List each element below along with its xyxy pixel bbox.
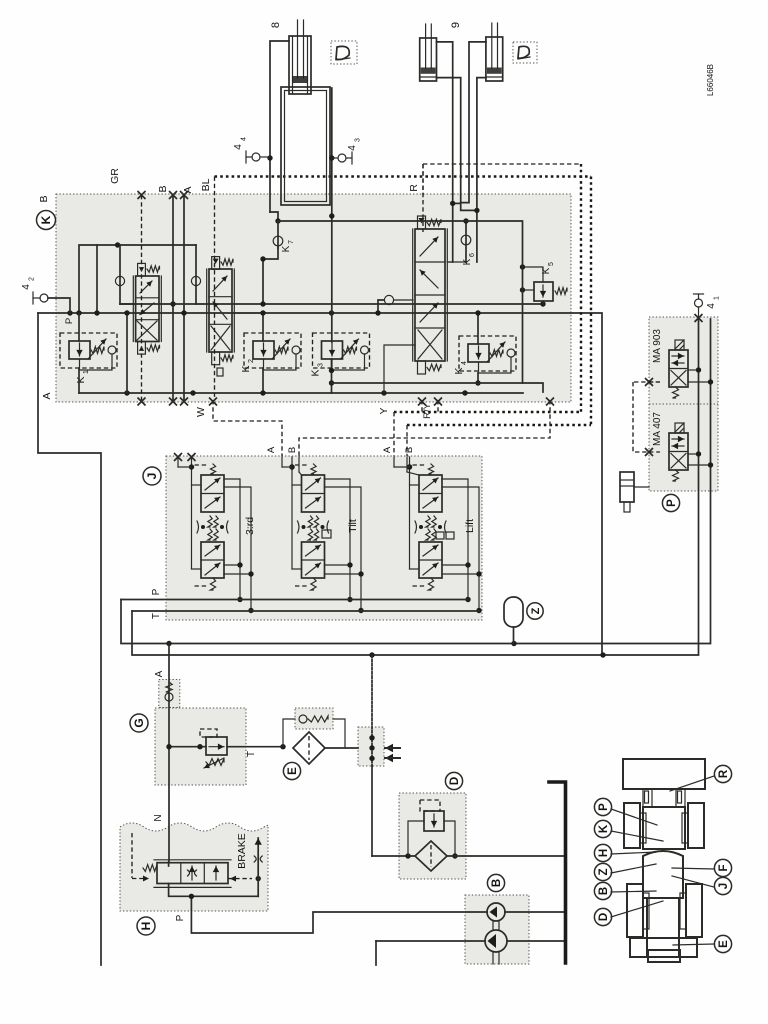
- svg-text:B: B: [157, 185, 169, 192]
- filter E bypass check: [283, 719, 295, 747]
- tractor front frame: [643, 807, 685, 849]
- wire B work line K1 section: [172, 195, 174, 400]
- svg-text:K: K: [310, 369, 322, 376]
- brake valve H shaded region: [120, 823, 268, 911]
- pump 2: [485, 930, 507, 952]
- pilot stubs K bottom: [421, 400, 423, 412]
- accumulator Z: [504, 597, 523, 627]
- svg-text:Y: Y: [378, 407, 390, 414]
- svg-text:B: B: [38, 195, 50, 202]
- svg-text:Z: Z: [598, 868, 610, 875]
- svg-text:4: 4: [461, 361, 468, 365]
- check valve A above G: [168, 644, 170, 863]
- wire A work line K1 section: [183, 195, 185, 400]
- pilot line Y lower: [394, 411, 581, 413]
- wire J pressure rail P: [121, 599, 468, 601]
- pump unit B shaded region: [465, 895, 529, 964]
- wire relief drain rail: [332, 382, 523, 384]
- wire K3 relief connections: [331, 359, 333, 393]
- wire brake valve N port: [168, 862, 170, 866]
- wire J tank rail T: [132, 610, 479, 612]
- pilot cap top K4 spool: [418, 216, 426, 229]
- wire cylinder 9 lines: [437, 42, 453, 262]
- pump 1: [487, 903, 505, 921]
- bucket position indicator box right: [513, 42, 537, 63]
- svg-text:3:rd: 3:rd: [244, 517, 256, 535]
- pilot line R dashed into K: [422, 164, 424, 232]
- pump shafts: [492, 921, 494, 930]
- svg-text:K: K: [453, 367, 465, 374]
- wire K1 spool ports: [120, 303, 136, 305]
- wire tank line T main: [132, 318, 699, 655]
- pilot line R/Y lower: [407, 424, 591, 426]
- relief valve K2: [244, 333, 301, 368]
- svg-text:P: P: [666, 499, 678, 507]
- svg-text:A: A: [382, 446, 393, 453]
- wire G connections: [169, 746, 206, 748]
- svg-text:A: A: [41, 392, 53, 399]
- svg-text:BRAKE: BRAKE: [236, 833, 248, 869]
- tractor callout D: [594, 908, 611, 925]
- tractor boom arms: [643, 789, 652, 807]
- svg-text:J: J: [718, 883, 730, 889]
- svg-text:L66046B: L66046B: [706, 64, 715, 96]
- pilot cap bottom K1 spool: [138, 342, 146, 355]
- wire K2 spool ports: [196, 303, 207, 305]
- tractor callout R: [714, 765, 731, 782]
- tractor callout E: [714, 935, 731, 952]
- svg-text:A: A: [154, 670, 165, 677]
- pilot valve block J shaded region: [166, 456, 482, 620]
- solenoid valve MA 407: [669, 433, 688, 470]
- svg-text:J: J: [145, 473, 159, 480]
- pilot cap bottom K2 spool: [212, 352, 220, 365]
- test point 4_1: [695, 299, 703, 307]
- svg-text:4: 4: [347, 145, 358, 151]
- filter D: [415, 841, 447, 871]
- tractor callout P: [594, 798, 611, 815]
- wire K4 relief connections: [477, 313, 479, 344]
- relief valve K3: [313, 333, 370, 368]
- connector box internals: [371, 655, 373, 766]
- valve G shaded region: [155, 708, 246, 785]
- svg-text:1: 1: [83, 370, 90, 374]
- test point 4_4: [252, 153, 260, 161]
- wire D connections: [372, 855, 415, 857]
- test point 4_3: [338, 154, 346, 162]
- svg-text:P: P: [598, 803, 610, 811]
- wire MA903 ports: [688, 369, 699, 371]
- tractor callout F: [714, 859, 731, 876]
- check valve K6: [465, 221, 467, 262]
- svg-text:K: K: [240, 365, 252, 372]
- spool valve K2 section: [209, 269, 232, 352]
- pilot bus vertical right pair: [580, 164, 582, 412]
- svg-text:K: K: [541, 267, 552, 274]
- svg-text:T: T: [151, 613, 162, 619]
- svg-text:B: B: [404, 447, 415, 453]
- filter E bypass box: [295, 708, 333, 729]
- relief valve G: [206, 737, 227, 755]
- svg-text:R/Y: R/Y: [422, 402, 433, 419]
- svg-text:N: N: [153, 814, 164, 821]
- label P circled: [662, 494, 679, 511]
- svg-text:Z: Z: [530, 607, 542, 614]
- svg-text:W: W: [195, 407, 207, 417]
- check valve K4 feed: [378, 300, 384, 313]
- relief valve D bypass: [424, 811, 444, 831]
- svg-text:B: B: [287, 447, 298, 453]
- tractor counterweight: [630, 938, 697, 957]
- svg-text:D: D: [449, 777, 461, 785]
- spool valve K4 section: [415, 229, 445, 361]
- svg-text:K: K: [462, 258, 473, 265]
- filter E: [293, 732, 325, 764]
- valve block K shaded region: [56, 194, 571, 402]
- spool valve K1 section: [136, 276, 159, 342]
- tractor callout Z: [594, 863, 611, 880]
- thick tank frame line: [549, 782, 566, 963]
- tractor rear wheels: [627, 884, 643, 937]
- pilot cap top K2 spool: [212, 257, 220, 270]
- label H circled: [137, 917, 155, 935]
- svg-text:K: K: [598, 824, 610, 833]
- bucket position indicator box: [331, 41, 357, 64]
- wire K bottom rail A: [79, 392, 523, 394]
- pilot cap top K1 spool: [138, 263, 146, 276]
- svg-text:BL: BL: [200, 178, 212, 191]
- relief valve K5: [534, 282, 553, 301]
- svg-text:P: P: [64, 318, 75, 324]
- svg-text:K: K: [39, 215, 53, 224]
- label D circled: [445, 772, 462, 789]
- svg-text:R: R: [718, 769, 730, 778]
- svg-text:E: E: [287, 767, 299, 775]
- wire MA407 ports: [688, 453, 699, 455]
- svg-text:E: E: [718, 940, 730, 948]
- pilot cylinder at P block: [620, 472, 634, 502]
- tractor bucket: [623, 759, 705, 789]
- pilot cap bottom K4 spool: [418, 361, 426, 374]
- tractor callout B: [594, 882, 611, 899]
- pilot line R header dashed: [423, 163, 581, 165]
- wire pilot supply line to P block: [121, 319, 711, 644]
- svg-text:MA 903: MA 903: [652, 329, 663, 363]
- svg-text:4: 4: [706, 303, 717, 309]
- label B circled: [487, 874, 504, 891]
- svg-text:6: 6: [469, 253, 476, 257]
- svg-text:7: 7: [288, 240, 295, 244]
- check valve A shaded box: [159, 680, 180, 708]
- wire brake valve pilot dashed: [228, 878, 252, 880]
- svg-text:H: H: [139, 922, 153, 931]
- wire K2 relief connections: [262, 313, 264, 341]
- tractor cab: [643, 851, 683, 898]
- pilot dashed to MA valves: [633, 381, 660, 383]
- tractor front wheels: [624, 803, 640, 848]
- svg-text:G: G: [132, 718, 146, 727]
- test point 4_2: [40, 294, 48, 302]
- relief valve K1: [60, 333, 117, 368]
- svg-text:1: 1: [714, 296, 721, 300]
- wire K internal rail: [120, 303, 543, 305]
- filter D shaded region: [399, 793, 466, 879]
- check valve K2 feed: [195, 245, 197, 304]
- label Z circled: [527, 603, 543, 619]
- relief valve K4: [459, 336, 516, 371]
- svg-text:4: 4: [21, 284, 32, 290]
- solenoid valve MA 903: [669, 350, 688, 387]
- pilot line W to J: [213, 400, 282, 456]
- wire K4 port links: [447, 261, 452, 263]
- svg-text:D: D: [598, 913, 610, 921]
- wire K feed header: [79, 245, 196, 313]
- svg-text:F: F: [718, 864, 730, 871]
- svg-text:5: 5: [548, 262, 555, 266]
- svg-text:3: 3: [355, 138, 362, 142]
- label E circled: [283, 762, 300, 779]
- svg-text:4: 4: [233, 144, 244, 150]
- label K circled: [37, 211, 56, 230]
- svg-text:8: 8: [270, 22, 282, 28]
- pilot line BL dashed: [214, 177, 216, 401]
- svg-text:P: P: [175, 914, 186, 921]
- tractor rear body: [647, 898, 679, 957]
- pilot valve section: [191, 457, 193, 569]
- wire K4 spool drain: [384, 345, 415, 393]
- brake valve H: [157, 863, 228, 884]
- pilot bus dotted upper: [215, 175, 592, 177]
- svg-text:Tilt: Tilt: [347, 519, 359, 533]
- label J circled: [143, 467, 161, 485]
- svg-text:9: 9: [450, 22, 462, 28]
- cylinder 9 left: [420, 38, 437, 81]
- wire cylinder port rail: [278, 221, 543, 392]
- svg-text:K: K: [75, 376, 87, 383]
- svg-text:B: B: [598, 887, 610, 895]
- svg-text:Lift: Lift: [464, 519, 476, 533]
- tractor callout J: [714, 877, 731, 894]
- pilot line B to J tilt: [299, 400, 550, 456]
- wire left tank return: [38, 313, 101, 965]
- svg-text:P: P: [151, 588, 162, 595]
- svg-text:GR: GR: [109, 168, 121, 184]
- pilot valve section: [291, 457, 293, 569]
- pilot line R dashed upper: [422, 164, 424, 195]
- label G circled: [130, 714, 148, 732]
- svg-text:T: T: [246, 751, 257, 757]
- svg-text:2: 2: [29, 277, 36, 281]
- brake accumulator arrow: [257, 838, 259, 896]
- tractor callout H: [594, 844, 611, 861]
- svg-text:R: R: [408, 184, 420, 192]
- svg-text:A: A: [266, 446, 277, 453]
- connector box shaded region: [358, 727, 384, 766]
- check valve K7: [270, 212, 278, 221]
- svg-text:3: 3: [318, 363, 325, 367]
- check valve K1 feed: [119, 245, 121, 304]
- wire K1 relief connections: [78, 313, 80, 341]
- svg-text:B: B: [491, 879, 503, 887]
- wire P supply rail: [38, 313, 602, 655]
- wire brake valve outlet: [169, 884, 259, 897]
- tractor callout K: [594, 820, 611, 837]
- svg-text:MA 407: MA 407: [652, 412, 663, 446]
- wire cylinder 8 port A: [331, 88, 333, 342]
- pilot line GR dashed: [141, 195, 143, 400]
- cylinder 8: [289, 36, 311, 94]
- solenoid valve block P shaded region: [649, 317, 718, 491]
- svg-text:H: H: [598, 849, 610, 857]
- node junctions on rails: [170, 301, 175, 306]
- svg-text:K: K: [281, 245, 292, 252]
- cylinder 9 right: [486, 37, 503, 81]
- wire pump lines: [505, 911, 566, 913]
- pilot valve section: [409, 457, 411, 569]
- svg-text:A: A: [182, 186, 194, 193]
- wire cylinder 8 port B: [270, 41, 289, 212]
- svg-text:2: 2: [248, 359, 255, 363]
- svg-text:4: 4: [241, 137, 248, 141]
